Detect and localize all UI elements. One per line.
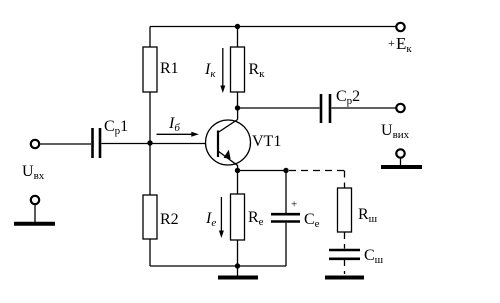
node base divider junction [147,140,152,145]
svg-text:+: + [388,36,395,50]
wire Rk top [237,27,239,48]
svg-text:Re: Re [248,209,264,228]
wire Ce top [285,171,287,214]
svg-text:Uвих: Uвих [381,122,410,141]
svg-text:Ie: Ie [205,210,216,229]
wire top rail [150,26,396,28]
node emitter junction [235,168,240,173]
wire emitter node to Re [237,171,239,195]
wire Cp2 to output terminal [332,107,396,109]
wire emitter to node [237,166,239,171]
ground main [218,266,258,278]
svg-text:Uвх: Uвх [22,163,45,182]
svg-text:Eк: Eк [396,34,412,55]
svg-text:Rк: Rк [249,61,266,80]
terminal output [396,104,404,112]
wire collector node to Cp2 [238,107,320,109]
wire R2 bottom [149,239,151,266]
capacitor Cp1 [93,128,101,158]
svg-text:R2: R2 [160,211,179,228]
resistor RK collector [231,47,245,92]
wire dashed Csh to ground [344,260,346,274]
svg-text:+: + [291,199,297,211]
wire Cp1 to base node [102,143,151,145]
arrow current Ik [220,48,225,93]
terminal input ground [14,196,55,224]
capacitor Ce [271,214,300,221]
ground shunt [325,276,364,280]
wire dashed Rsh to Csh [344,232,346,249]
resistor R2 [143,195,157,239]
arrow current Ib [157,132,199,137]
resistor Re [231,194,245,240]
svg-text:Iк: Iк [204,61,216,80]
node bottom ground junction [235,263,240,268]
arrow current Ie [219,197,224,238]
terminal +Ek [396,23,404,31]
svg-text:VT1: VT1 [252,133,281,150]
wire base node to transistor base [150,143,217,145]
wire Rk bottom to collector node [237,92,239,108]
wire R1 bottom to base node [149,92,151,143]
svg-text:Cш: Cш [364,247,384,266]
capacitor Cp2 [321,94,330,123]
resistor Rsh [338,188,352,232]
wire Re bottom [237,240,239,266]
transistor VT1 [206,120,251,166]
capacitor Csh [329,250,360,259]
wire R1 top [149,27,151,48]
terminal input [31,140,39,148]
node collector junction [235,105,240,110]
wire input to Cp1 [40,143,92,145]
node top rail / Rk junction [235,24,240,29]
wire collector into transistor [237,108,239,120]
svg-text:Rш: Rш [358,206,378,225]
svg-text:Cp2: Cp2 [336,88,360,107]
wire Ce bottom [285,223,287,266]
terminal output ground [381,149,422,167]
svg-text:Iб: Iб [168,115,180,134]
svg-text:R1: R1 [160,60,179,77]
wire emitter node to Ce [238,170,287,172]
wire bottom rail [150,265,286,267]
node Ce junction [283,168,288,173]
svg-text:Ce: Ce [304,211,320,230]
svg-text:Cp1: Cp1 [104,118,128,137]
resistor R1 [143,47,157,92]
wire base node to R2 top [149,143,151,195]
wire dashed emitter to Rsh [289,171,345,189]
